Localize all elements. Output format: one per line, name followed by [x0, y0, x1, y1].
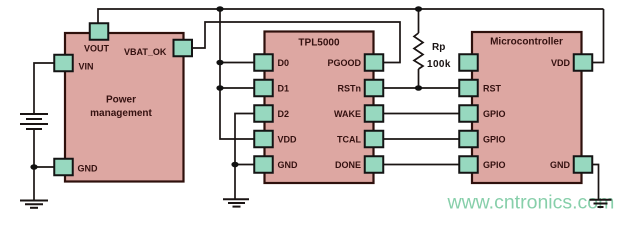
pin D1	[254, 80, 289, 97]
svg-text:TCAL: TCAL	[337, 135, 361, 145]
junction top bus / Rp	[415, 6, 422, 12]
svg-text:www.cntronics.com: www.cntronics.com	[447, 192, 615, 214]
svg-text:WAKE: WAKE	[334, 109, 361, 119]
svg-text:RSTn: RSTn	[338, 84, 362, 94]
svg-text:GND: GND	[78, 164, 99, 174]
svg-text:GPIO: GPIO	[483, 160, 506, 170]
pin GND (power)	[54, 159, 98, 176]
wire top bus VOUT net	[98, 9, 604, 23]
svg-text:PGOOD: PGOOD	[327, 58, 361, 68]
svg-text:VDD: VDD	[278, 135, 298, 145]
wire VBAT_OK to PGOOD	[192, 22, 401, 63]
wire D2 to ground net	[235, 114, 254, 199]
svg-text:GPIO: GPIO	[483, 109, 506, 119]
junction net-A / D1	[216, 85, 223, 91]
svg-text:VDD: VDD	[551, 58, 571, 68]
svg-text:TPL5000: TPL5000	[298, 38, 340, 49]
battery BT1	[20, 114, 48, 129]
pin GPIO 2	[459, 131, 505, 148]
pin RSTn	[338, 80, 384, 97]
pin VDD (microcontroller)	[551, 54, 592, 71]
pin NC (microcontroller top-left)	[459, 54, 478, 71]
svg-text:GND: GND	[550, 160, 571, 170]
wire battery to GND net	[34, 129, 54, 200]
pin WAKE	[334, 105, 383, 122]
block U2 TPL5000	[265, 32, 374, 184]
wire net-A vertical D0/D1/VDD	[220, 9, 254, 139]
wire microcontroller GND to ground	[592, 165, 599, 200]
svg-text:D1: D1	[278, 84, 290, 94]
wire WAKE row	[384, 113, 460, 115]
ground (battery)	[20, 201, 48, 208]
block U3 Microcontroller	[472, 32, 582, 183]
svg-text:Rp: Rp	[432, 42, 445, 53]
svg-text:VIN: VIN	[79, 62, 94, 72]
svg-text:RST: RST	[483, 84, 502, 94]
resistor Rp	[414, 9, 423, 88]
pin VOUT	[84, 23, 110, 53]
pin PGOOD	[327, 54, 383, 71]
svg-text:GND: GND	[278, 160, 299, 170]
pin DONE	[335, 156, 383, 173]
svg-text:100k: 100k	[427, 59, 451, 70]
wire VDD drop to microcontroller	[592, 9, 604, 63]
pin GPIO 1	[459, 105, 505, 122]
pin VDD (TPL5000)	[254, 131, 297, 148]
ground (TPL5000)	[223, 199, 249, 206]
wire RSTn row	[384, 87, 460, 89]
pin D0	[254, 54, 289, 71]
junction top bus / net-A	[216, 6, 223, 12]
pin VBAT_OK	[124, 40, 192, 57]
junction battery / GND	[30, 164, 37, 170]
svg-text:Microcontroller: Microcontroller	[490, 37, 563, 48]
svg-text:GPIO: GPIO	[483, 135, 506, 145]
pin GND (TPL5000)	[254, 156, 298, 173]
pin GPIO 3	[459, 156, 505, 173]
pin TCAL	[337, 131, 383, 148]
svg-text:DONE: DONE	[335, 160, 361, 170]
wire DONE row	[384, 164, 460, 166]
svg-text:Power: Power	[106, 95, 136, 106]
svg-text:management: management	[90, 108, 152, 119]
svg-text:VBAT_OK: VBAT_OK	[124, 47, 167, 57]
wire TCAL row	[384, 138, 460, 140]
pin VIN	[54, 55, 93, 72]
svg-text:VOUT: VOUT	[84, 44, 110, 54]
svg-text:D2: D2	[278, 109, 290, 119]
pin RST	[459, 80, 501, 97]
svg-text:D0: D0	[278, 58, 290, 68]
junction net-A / D0	[216, 60, 223, 66]
wire battery VIN net	[34, 63, 54, 114]
pin D2	[254, 105, 289, 122]
ground (microcontroller)	[590, 200, 612, 207]
pin GND (microcontroller)	[550, 156, 592, 173]
junction Rp / RSTn	[415, 85, 422, 91]
junction D2 / GND	[231, 162, 238, 168]
block U1 Power management	[65, 33, 184, 182]
